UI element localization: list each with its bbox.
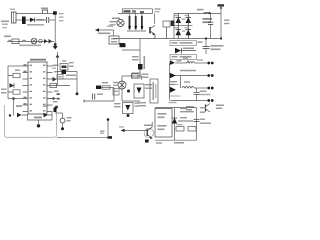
text J1 label <box>10 9 15 10</box>
resistor below vcc <box>57 75 63 80</box>
diode D14 <box>170 87 176 93</box>
text row4 value <box>197 59 203 60</box>
wire opto drop <box>187 60 189 63</box>
wire primary bottom bus <box>113 38 220 40</box>
junction blob right bottom <box>54 108 58 113</box>
text C3 value <box>224 20 230 25</box>
text R3 left <box>132 56 139 60</box>
node D10 out <box>127 114 130 117</box>
wire bottom right bus <box>155 139 197 141</box>
node x77 end <box>76 92 79 95</box>
junction node DC bus <box>54 43 57 46</box>
resistor box below T2 <box>113 89 119 96</box>
node vcc right <box>55 106 58 109</box>
node Q5 emitter <box>145 140 149 143</box>
transformer T2 circle <box>118 81 126 89</box>
wire bottom AC line <box>16 19 30 21</box>
text Q2 label <box>216 105 224 110</box>
wire to bus <box>49 19 55 21</box>
text Q1 label <box>155 8 161 12</box>
wire secondary top rail <box>174 13 221 15</box>
IC U1 pins left <box>23 66 29 112</box>
transistor Q5 <box>144 122 153 139</box>
text T1 left label <box>110 21 117 25</box>
snubber tick <box>135 11 137 14</box>
wire row4 left stub <box>175 62 186 64</box>
text D10 left <box>114 103 121 107</box>
text +12V top right <box>218 4 225 6</box>
junction blob top right <box>53 11 57 14</box>
text 4x1N4007 <box>98 26 113 35</box>
node blob under R2 <box>120 43 125 47</box>
resistor R4 box bottom <box>132 73 149 78</box>
capacitor C7 blob <box>62 70 67 75</box>
capacitor C2 <box>47 17 49 23</box>
text C15 value <box>180 70 196 72</box>
wire out rail top <box>171 75 208 77</box>
text R15 <box>138 102 146 106</box>
wire pin85 extension <box>53 85 71 87</box>
text R25 <box>186 106 194 111</box>
text U1 title <box>30 59 46 61</box>
wire bridge drop <box>113 30 115 36</box>
connector J1 AC inlet <box>12 12 17 23</box>
text R row label <box>4 36 11 38</box>
snubber R C network <box>124 10 145 13</box>
thermistor circle TH1 <box>60 113 65 128</box>
wire vertical bus x55 <box>54 15 56 45</box>
wire module top <box>155 107 197 109</box>
wire drop x180 <box>180 76 182 89</box>
text vcc left <box>52 65 56 69</box>
transformer T1 winding bar 3 <box>141 14 144 30</box>
node T2 right blob <box>127 90 130 93</box>
text C16 value <box>200 91 211 96</box>
enclosure protection box <box>5 105 57 137</box>
node right pin <box>52 97 54 99</box>
wire aux bottom <box>84 100 114 103</box>
text under AC filter <box>27 24 44 26</box>
diode D12 row4 <box>170 60 175 65</box>
node junction C5 <box>205 37 207 39</box>
diode D2 <box>176 14 182 26</box>
wire T1 top loop <box>122 9 152 14</box>
connector P1 <box>207 74 213 77</box>
wire bridge output arrow <box>95 28 114 31</box>
diode right pin arrow <box>53 77 57 82</box>
text right pin labels <box>43 65 59 107</box>
text D9 value <box>145 84 152 89</box>
wire T1 winding bottom <box>127 30 146 32</box>
wire under-IC left drop <box>28 112 53 120</box>
text Q5 label <box>144 125 152 127</box>
text L1 label <box>197 9 204 11</box>
node junction +V <box>220 37 222 39</box>
wire out rail v <box>174 108 176 141</box>
text AC label <box>1 21 9 29</box>
text right col small rows <box>59 13 64 21</box>
text 12V 70W <box>203 18 213 23</box>
text R6 label <box>15 70 20 71</box>
snubber box secondary <box>163 21 174 39</box>
node bus end blob <box>108 136 113 139</box>
text R8 value <box>69 62 74 67</box>
wire D10 stub <box>127 114 129 116</box>
node blob capacitor C4 <box>120 43 126 47</box>
text C5 value <box>211 45 224 50</box>
wire mid segment <box>35 19 47 21</box>
text D14 label <box>169 81 177 85</box>
text L2 label <box>183 58 188 59</box>
text NTC values <box>19 45 41 47</box>
text D12 label <box>177 60 182 61</box>
wire vcc row <box>58 71 78 73</box>
text D6 value <box>183 48 194 50</box>
text L3 label <box>184 81 190 82</box>
text D1 value <box>37 19 45 21</box>
diode Dq right below <box>44 113 53 117</box>
capacitor C3 output <box>208 14 213 39</box>
capacitor C5 <box>203 39 210 55</box>
resistor R10 box <box>102 86 110 89</box>
wire sec top row <box>122 75 142 77</box>
wire gate rail <box>139 39 141 76</box>
wire base line long <box>121 129 147 132</box>
varistor RV1 <box>44 39 52 44</box>
transistor Q2 <box>206 104 211 113</box>
resistor R8 <box>60 64 68 71</box>
text opto row label <box>170 41 196 46</box>
regulator module box <box>155 109 172 138</box>
diode D1 <box>30 18 35 23</box>
lamp small circle <box>39 39 43 43</box>
text D2 value <box>182 19 186 20</box>
IC U1 pins right <box>47 66 53 112</box>
text below bus <box>156 142 184 144</box>
connector P2 <box>207 87 213 90</box>
wire drop to protection <box>13 99 15 116</box>
wire right rail v196 <box>196 108 198 141</box>
wire sec bottom row <box>122 100 140 102</box>
text right column <box>200 107 211 124</box>
resistor R17 <box>188 127 196 132</box>
resistor R3 blob on rail <box>138 64 143 70</box>
regulator VR1 tall box <box>150 79 158 103</box>
transformer T1 core circle <box>117 19 124 26</box>
diode D13 <box>170 73 176 79</box>
IC U1 controller box <box>28 62 47 114</box>
transistor Q1 switch <box>150 14 155 39</box>
resistor R7 <box>8 90 20 94</box>
connector P0 <box>207 62 213 65</box>
resistor R14 on row <box>132 74 139 78</box>
text rail right vertical <box>144 56 146 69</box>
tick marks row2 <box>9 40 27 41</box>
wire bottom feed <box>8 98 23 100</box>
text left col <box>1 89 7 94</box>
wire aux row <box>101 87 114 89</box>
wire top AC line <box>16 13 55 15</box>
capacitor C14 plates <box>194 119 200 121</box>
IC U1 pin numbers left <box>30 65 33 112</box>
resistor R1 <box>12 39 19 44</box>
text R9 label <box>102 82 108 83</box>
fuse F1 <box>41 8 48 14</box>
diode D4 <box>186 14 192 26</box>
capacitor C8 <box>93 94 104 100</box>
boxed diode D10 <box>123 103 134 114</box>
text C7 value <box>66 75 76 77</box>
resistor right pin box <box>50 83 57 87</box>
resistor R16 <box>176 124 184 131</box>
node pin feed <box>12 97 15 100</box>
text T1 label <box>112 18 120 20</box>
wire out left rail <box>169 63 171 101</box>
diode D8 <box>10 83 15 88</box>
wire out mid row <box>194 87 207 89</box>
text D10 right <box>135 102 140 106</box>
diode D6 feedback <box>175 48 196 54</box>
node vcc tap <box>55 106 58 109</box>
inductor L2 <box>187 62 195 63</box>
wire aux row <box>122 49 140 51</box>
wire aux drop <box>113 88 115 102</box>
inductor L3 <box>182 87 194 89</box>
IC U1 pin numbers right <box>43 65 46 112</box>
text row1 right label <box>198 41 203 43</box>
node prot left <box>9 114 11 116</box>
wire +V rail vertical <box>220 8 222 39</box>
text above R8 <box>62 60 67 61</box>
connector P3 <box>207 99 213 102</box>
wire ground bus bottom <box>57 136 108 138</box>
wire rect left rail <box>173 14 175 39</box>
wire NTC row <box>7 41 54 43</box>
resistor R2 box <box>109 36 119 44</box>
lamp NTC circle <box>31 38 37 44</box>
boxed diode D9 <box>134 84 144 98</box>
diode Dq left below <box>17 113 28 117</box>
text R24 rows <box>178 117 193 122</box>
node sense <box>107 118 110 121</box>
text below bottom row <box>169 102 177 103</box>
text left pin labels <box>24 64 27 104</box>
diode D3 <box>176 26 182 39</box>
capacitor C16 <box>194 88 200 101</box>
wire T1 top rail <box>118 13 153 15</box>
text D3 value <box>182 31 186 32</box>
wire sec drop right <box>141 76 143 80</box>
wire vcc rail <box>57 52 59 86</box>
text right pin marks <box>57 93 60 99</box>
wire IC gnd drop <box>38 120 40 126</box>
wire out bottom row <box>171 100 208 102</box>
node +V tap <box>220 7 222 9</box>
node IC gnd <box>37 124 40 127</box>
wire rect mid rail <box>174 25 193 27</box>
diode D11 <box>172 118 177 124</box>
wire left rail x8 <box>7 66 9 99</box>
aux winding blob R9 <box>96 86 101 90</box>
text TH1 value <box>67 117 72 121</box>
transformer T1 winding bar 2 <box>134 14 137 30</box>
text R26 rows <box>180 108 194 113</box>
wire thermistor top <box>55 112 63 114</box>
text R13 <box>100 131 105 134</box>
frame line mid <box>169 84 179 86</box>
net arrow VCC <box>56 54 60 57</box>
transformer T1 winding bar 1 <box>128 14 131 30</box>
text pin105 label left <box>16 105 22 107</box>
node TH1 gnd <box>61 127 64 130</box>
text T2 labels <box>113 82 118 86</box>
wire pin79 extension <box>53 78 78 80</box>
inductor L1 <box>204 12 212 14</box>
wire drop x77 <box>76 72 78 94</box>
wire row4 <box>195 62 207 64</box>
resistor R5 boxed label <box>170 54 196 59</box>
resistor R6 <box>8 73 20 77</box>
ground arrow under bus <box>53 46 58 50</box>
wire pin1 stub <box>8 65 23 67</box>
capacitor C1 filter (dark) <box>22 17 26 25</box>
wire sense drop <box>107 120 109 138</box>
text Da label <box>34 117 42 119</box>
wire right pin stub <box>47 98 56 100</box>
text R23 above arrow <box>119 126 124 127</box>
diode D5 <box>186 26 192 39</box>
wire sec rail x122 <box>121 76 123 101</box>
frame line low <box>169 95 181 97</box>
text above thermistor <box>53 101 58 102</box>
text diode labels top <box>175 15 189 28</box>
